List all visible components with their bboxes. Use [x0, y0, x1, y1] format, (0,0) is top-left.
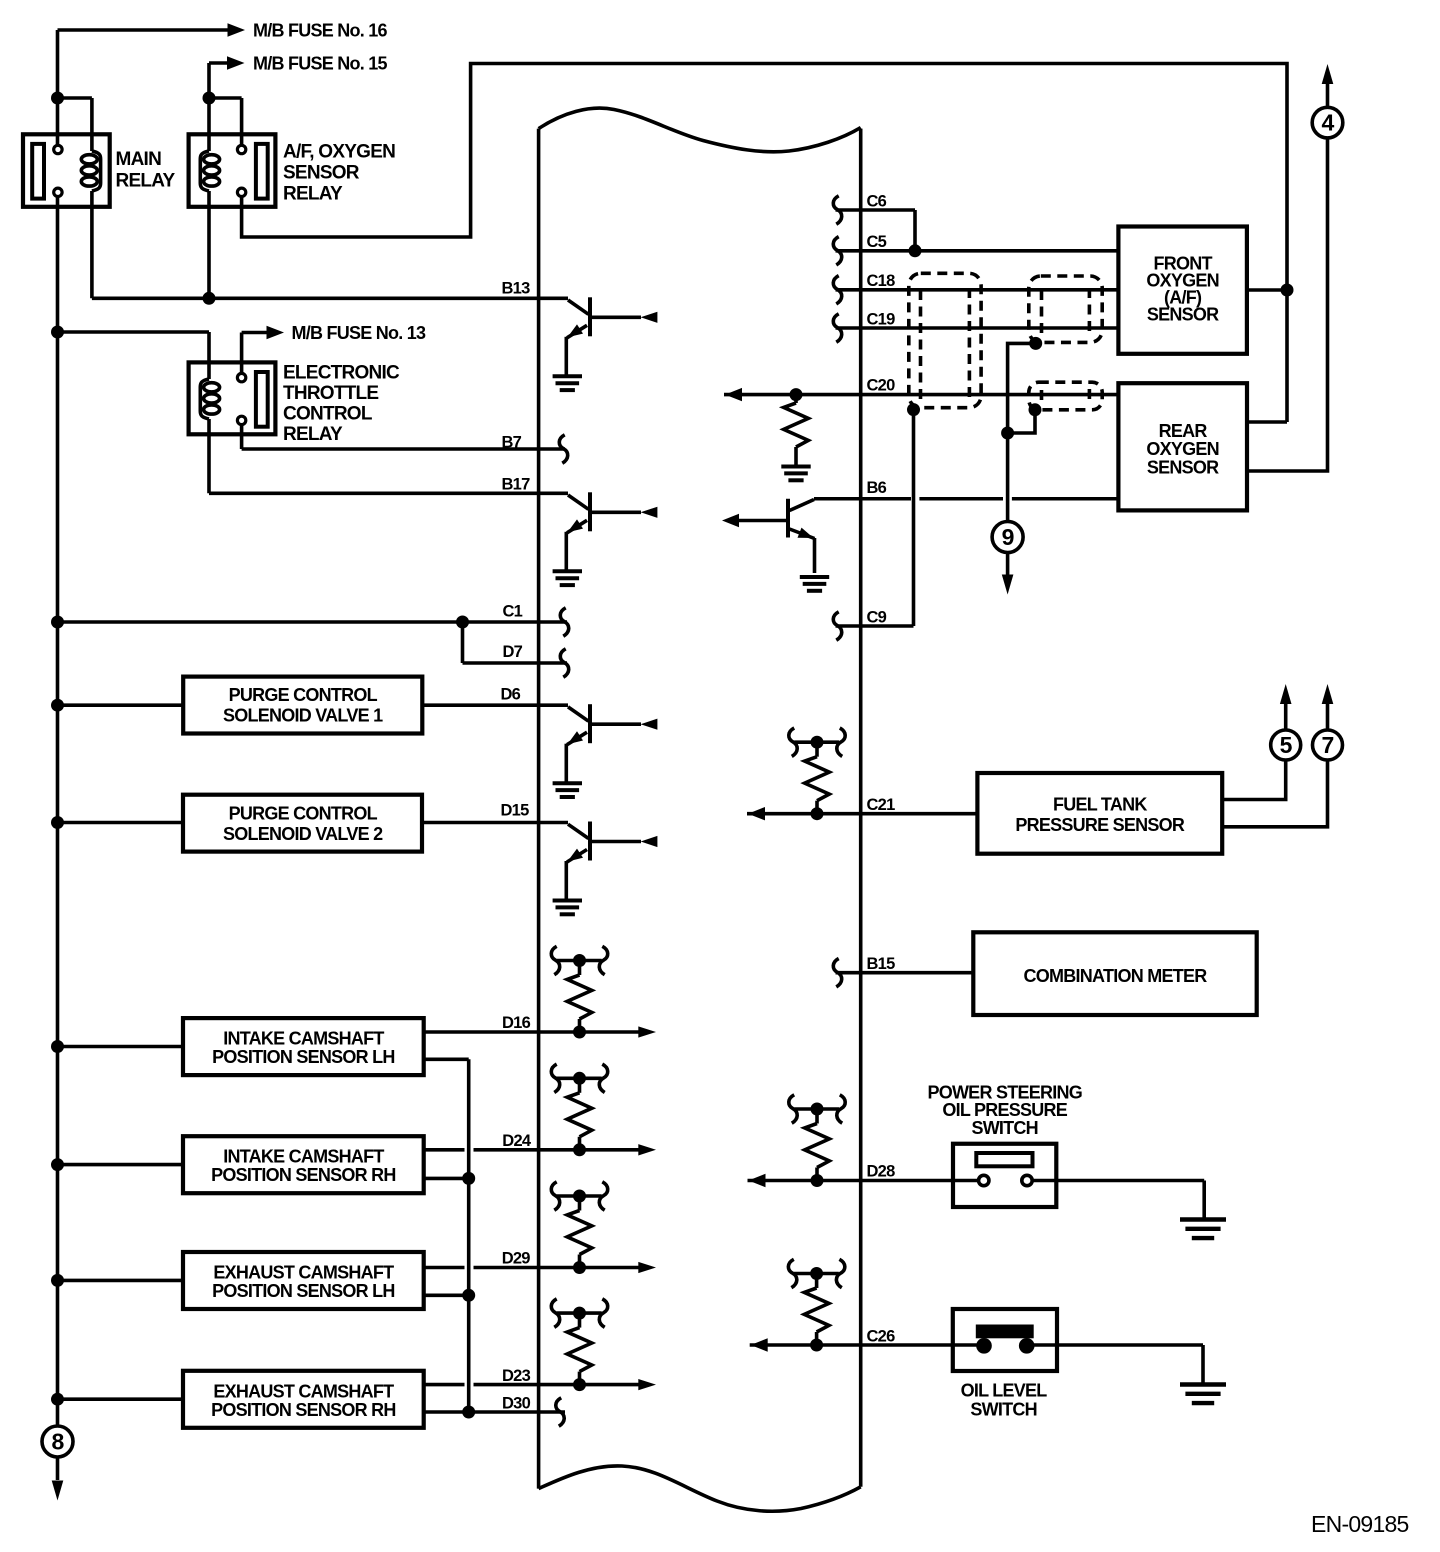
- svg-text:REAR: REAR: [1159, 421, 1208, 441]
- svg-text:C21: C21: [867, 796, 896, 814]
- svg-text:POSITION SENSOR LH: POSITION SENSOR LH: [212, 1281, 395, 1301]
- svg-text:EXHAUST CAMSHAFT: EXHAUST CAMSHAFT: [213, 1263, 394, 1283]
- svg-text:C20: C20: [867, 377, 896, 395]
- svg-text:D24: D24: [502, 1132, 532, 1150]
- svg-text:B17: B17: [502, 476, 531, 494]
- svg-text:OXYGEN: OXYGEN: [1146, 439, 1219, 459]
- svg-text:M/B FUSE No. 15: M/B FUSE No. 15: [253, 54, 388, 74]
- svg-text:CONTROL: CONTROL: [283, 404, 373, 425]
- svg-text:4: 4: [1321, 110, 1334, 136]
- svg-text:C18: C18: [867, 272, 896, 290]
- svg-text:SENSOR: SENSOR: [1147, 458, 1219, 478]
- svg-text:D15: D15: [501, 802, 530, 820]
- svg-text:EXHAUST CAMSHAFT: EXHAUST CAMSHAFT: [213, 1381, 394, 1401]
- svg-text:OIL LEVEL: OIL LEVEL: [961, 1381, 1048, 1401]
- svg-text:D16: D16: [502, 1014, 531, 1032]
- svg-text:D30: D30: [502, 1395, 531, 1413]
- svg-text:C1: C1: [503, 603, 523, 621]
- svg-text:POSITION SENSOR LH: POSITION SENSOR LH: [212, 1047, 395, 1067]
- svg-text:SOLENOID VALVE 2: SOLENOID VALVE 2: [223, 824, 383, 844]
- svg-text:INTAKE CAMSHAFT: INTAKE CAMSHAFT: [223, 1147, 384, 1167]
- svg-text:B15: B15: [867, 955, 896, 973]
- svg-text:B13: B13: [502, 280, 531, 298]
- svg-text:PURGE CONTROL: PURGE CONTROL: [229, 685, 378, 705]
- svg-text:SOLENOID VALVE 1: SOLENOID VALVE 1: [223, 706, 383, 726]
- svg-text:D7: D7: [503, 643, 523, 661]
- svg-text:COMBINATION METER: COMBINATION METER: [1024, 966, 1208, 986]
- svg-text:8: 8: [51, 1429, 64, 1455]
- svg-text:C9: C9: [867, 609, 887, 627]
- svg-text:C19: C19: [867, 311, 896, 329]
- svg-text:MAIN: MAIN: [116, 149, 162, 170]
- svg-text:D28: D28: [867, 1163, 896, 1181]
- svg-text:PRESSURE SENSOR: PRESSURE SENSOR: [1015, 815, 1185, 835]
- svg-text:FUEL TANK: FUEL TANK: [1053, 795, 1147, 815]
- svg-text:SENSOR: SENSOR: [283, 163, 360, 184]
- svg-text:ELECTRONIC: ELECTRONIC: [283, 363, 400, 384]
- svg-text:SWITCH: SWITCH: [970, 1399, 1037, 1419]
- svg-text:POSITION SENSOR RH: POSITION SENSOR RH: [211, 1400, 396, 1420]
- svg-text:C5: C5: [867, 233, 887, 251]
- svg-text:SENSOR: SENSOR: [1147, 305, 1219, 325]
- svg-text:B6: B6: [867, 479, 887, 497]
- svg-text:B7: B7: [502, 433, 522, 451]
- svg-text:M/B FUSE No. 16: M/B FUSE No. 16: [253, 21, 388, 41]
- svg-text:PURGE CONTROL: PURGE CONTROL: [229, 803, 378, 823]
- svg-text:D23: D23: [502, 1367, 531, 1385]
- svg-text:M/B FUSE No. 13: M/B FUSE No. 13: [292, 323, 427, 343]
- svg-text:EN-09185: EN-09185: [1311, 1511, 1409, 1537]
- svg-text:OIL PRESSURE: OIL PRESSURE: [942, 1100, 1067, 1120]
- svg-text:7: 7: [1321, 732, 1333, 758]
- svg-text:D29: D29: [502, 1250, 531, 1268]
- svg-text:D6: D6: [501, 686, 521, 704]
- svg-text:C26: C26: [867, 1328, 896, 1346]
- svg-text:C6: C6: [867, 193, 887, 211]
- svg-text:RELAY: RELAY: [283, 184, 343, 205]
- svg-text:A/F, OXYGEN: A/F, OXYGEN: [283, 142, 395, 163]
- svg-text:9: 9: [1002, 524, 1014, 550]
- svg-text:THROTTLE: THROTTLE: [283, 383, 378, 404]
- svg-text:SWITCH: SWITCH: [971, 1118, 1038, 1138]
- svg-text:RELAY: RELAY: [283, 424, 343, 445]
- svg-text:RELAY: RELAY: [116, 171, 176, 192]
- svg-text:INTAKE CAMSHAFT: INTAKE CAMSHAFT: [223, 1029, 384, 1049]
- svg-text:5: 5: [1280, 732, 1293, 758]
- svg-text:POSITION SENSOR RH: POSITION SENSOR RH: [211, 1165, 396, 1185]
